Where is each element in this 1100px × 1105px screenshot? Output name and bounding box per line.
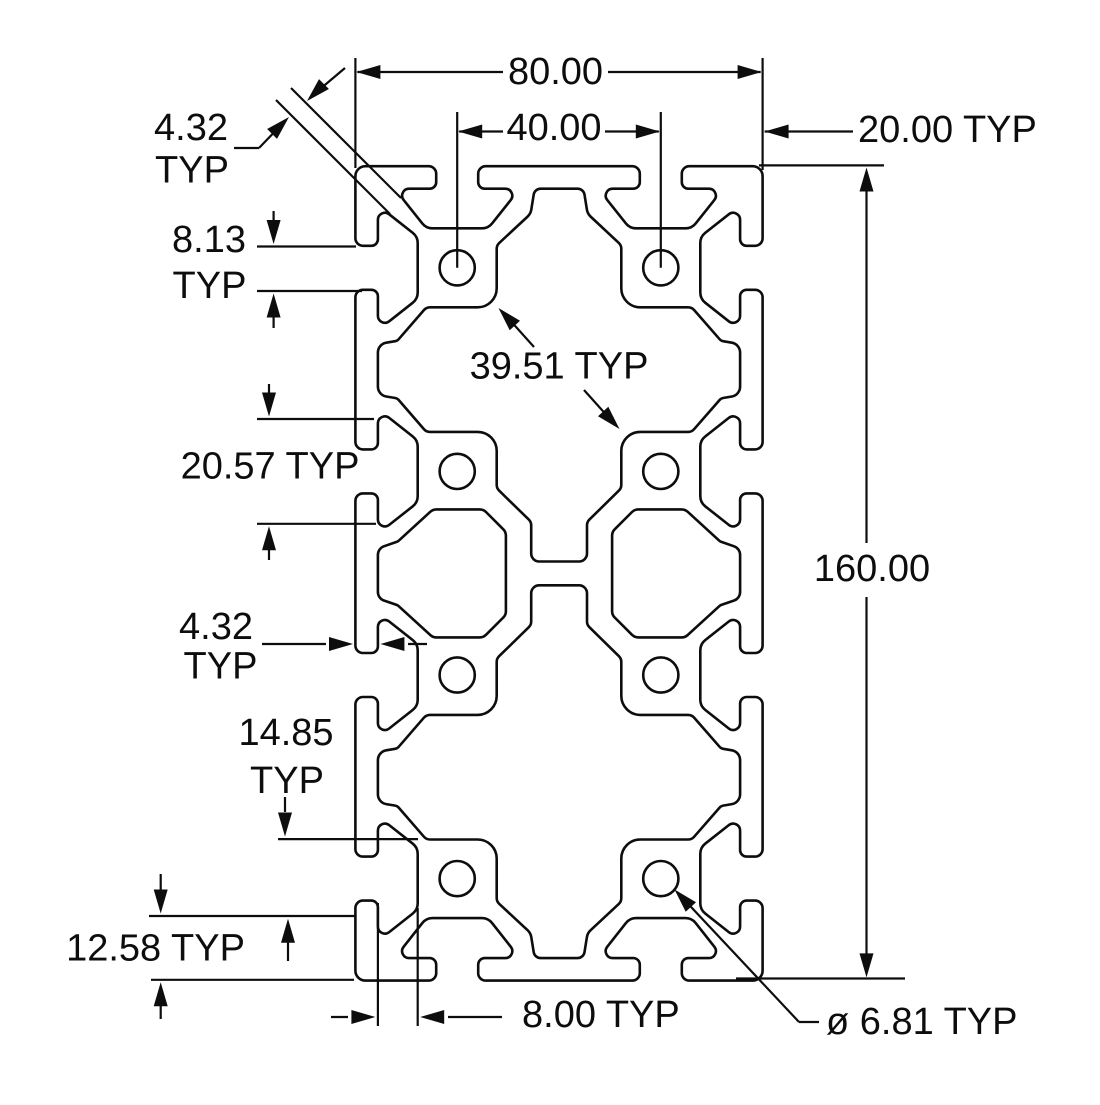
bore hole r4c2 xyxy=(643,861,678,896)
dim 8.00 TYP xyxy=(377,903,379,1026)
dim 40.00 xyxy=(456,112,458,268)
bore hole r1c1 xyxy=(440,250,475,285)
svg-text:20.00 TYP: 20.00 TYP xyxy=(858,109,1037,151)
center star cavity lower xyxy=(378,585,740,958)
svg-text:8.00 TYP: 8.00 TYP xyxy=(522,994,680,1036)
octagon cavity right xyxy=(612,509,740,637)
svg-text:4.32: 4.32 xyxy=(179,606,253,648)
svg-text:14.85: 14.85 xyxy=(238,712,333,754)
svg-text:20.57 TYP: 20.57 TYP xyxy=(181,446,360,488)
center star cavity upper xyxy=(378,189,740,562)
extrusion outer boundary with T-slot openings xyxy=(355,166,762,980)
bore hole r1c2 xyxy=(643,250,678,285)
svg-text:TYP: TYP xyxy=(184,646,258,688)
svg-text:4.32: 4.32 xyxy=(154,107,228,149)
svg-text:80.00: 80.00 xyxy=(508,51,603,93)
svg-text:8.13: 8.13 xyxy=(172,219,246,261)
bore hole r2c1 xyxy=(440,454,475,489)
dim 80.00 top xyxy=(354,58,356,168)
bore hole r2c2 xyxy=(643,454,678,489)
svg-text:160.00: 160.00 xyxy=(814,548,930,590)
bore hole r3c2 xyxy=(643,657,678,692)
bore hole r4c1 xyxy=(440,861,475,896)
svg-text:39.51 TYP: 39.51 TYP xyxy=(470,346,649,388)
octagon cavity left xyxy=(378,509,506,637)
svg-text:ø 6.81 TYP: ø 6.81 TYP xyxy=(826,1001,1018,1043)
svg-text:TYP: TYP xyxy=(173,265,247,307)
bore hole r3c1 xyxy=(440,657,475,692)
svg-text:12.58 TYP: 12.58 TYP xyxy=(66,928,245,970)
svg-text:TYP: TYP xyxy=(250,760,324,802)
svg-text:TYP: TYP xyxy=(155,150,229,192)
dim 160.00 xyxy=(759,164,884,166)
svg-text:40.00: 40.00 xyxy=(506,107,601,149)
dim 20.00 TYP xyxy=(765,125,789,139)
